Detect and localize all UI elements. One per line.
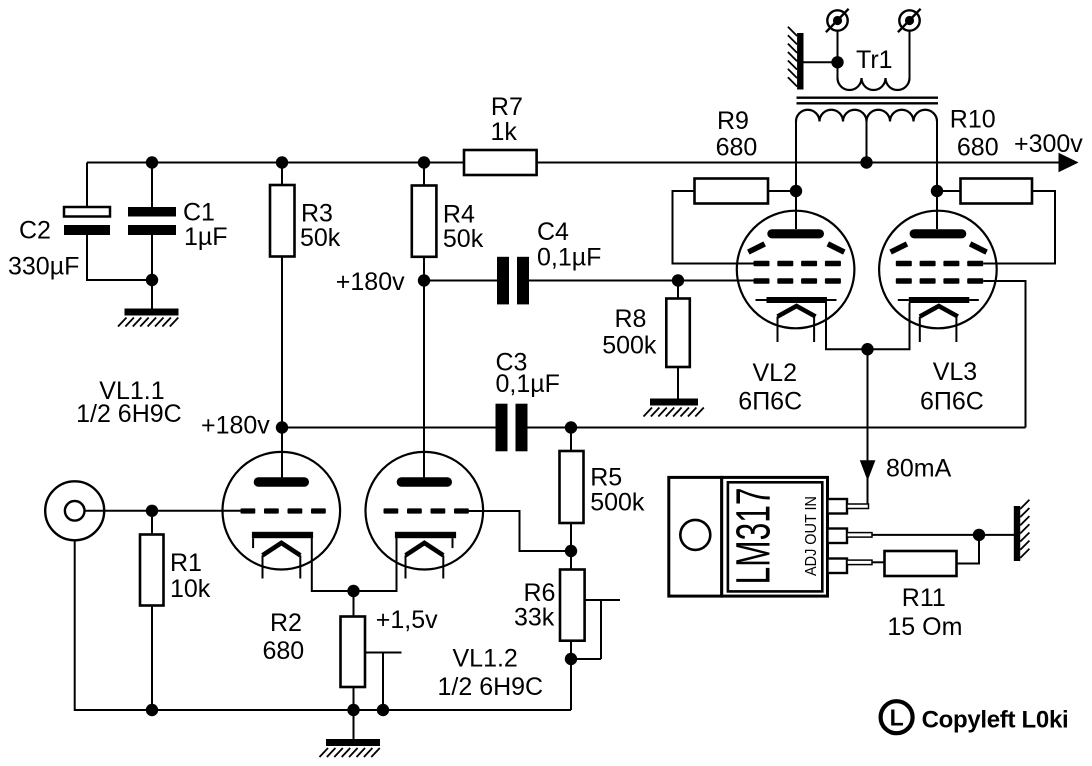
pentode VL3 <box>879 211 997 342</box>
svg-text:1/2 6Н9С: 1/2 6Н9С <box>76 400 182 428</box>
wire bus to ground 3 <box>353 710 355 740</box>
svg-text:+300v: +300v <box>1014 130 1083 158</box>
svg-text:680: 680 <box>263 637 305 665</box>
resistor R7 <box>464 150 537 175</box>
label VL1.2 <box>438 645 544 702</box>
triode VL1.2 <box>366 452 484 579</box>
wire ADJ to R11 <box>872 561 885 563</box>
junction C4-R8 <box>672 274 684 286</box>
label R4 <box>443 201 484 254</box>
resistor R6 (trimmer) <box>560 570 585 641</box>
label VL2 <box>738 359 802 416</box>
LM317 pin IN <box>828 499 869 514</box>
svg-text:R8: R8 <box>615 305 647 333</box>
ground below R8 <box>644 399 704 417</box>
label VL1.1 <box>76 377 182 428</box>
Tr1 primary winding <box>838 78 910 90</box>
wire ground bus bottom <box>75 540 571 710</box>
resistor R3 <box>270 185 295 257</box>
svg-text:680: 680 <box>957 134 999 162</box>
capacitor C3 <box>496 404 528 452</box>
wire R3 to VL1.1 anode <box>281 257 283 478</box>
junction Tr1 primary <box>831 56 843 68</box>
label R6 <box>514 579 555 632</box>
wire R9 right <box>768 190 796 192</box>
svg-text:R10: R10 <box>950 106 996 134</box>
label R1 <box>170 549 211 603</box>
junction C1-C2 <box>146 274 158 286</box>
pentode VL2 <box>737 211 855 342</box>
LM317 body U1 <box>722 477 828 596</box>
svg-text:R9: R9 <box>717 107 749 135</box>
input connector J1 <box>45 481 104 540</box>
svg-text:ADJ OUT IN: ADJ OUT IN <box>803 496 820 576</box>
svg-text:Tr1: Tr1 <box>856 46 893 74</box>
resistor R8 <box>666 299 690 368</box>
copyleft logo <box>881 701 913 733</box>
junction R1-bus <box>146 704 158 716</box>
junction cathodes VL1 <box>347 585 359 597</box>
ground near Tr1 <box>788 27 804 90</box>
R2 wiper tap <box>365 653 402 711</box>
capacitor C2 <box>64 207 110 235</box>
wire R1 bottom <box>151 606 153 711</box>
wire terminal1 down <box>837 31 839 79</box>
wire R6 top <box>570 551 572 570</box>
junction R3-C3 node <box>276 421 288 433</box>
wire VL3 grid riser <box>983 281 1025 428</box>
label R11 <box>887 584 962 641</box>
wire R11 to junction <box>957 535 980 564</box>
wire R5 top <box>570 428 572 452</box>
junction input-R1 <box>146 505 158 517</box>
label 80mA <box>886 455 952 483</box>
junction R9-anode VL2 <box>790 185 802 197</box>
label C4 <box>537 218 601 272</box>
wire secondary center tap <box>866 122 868 163</box>
wire R1 top <box>151 511 153 535</box>
label R7 <box>491 93 523 146</box>
svg-text:33k: 33k <box>514 604 555 632</box>
label +180v lower <box>201 412 270 440</box>
wire R4 node to C4 <box>424 280 497 282</box>
wire secondary left to VL2 anode <box>795 122 797 230</box>
Tr1 core <box>797 98 939 104</box>
label LM317 <box>728 488 781 585</box>
ground bottom <box>320 739 381 757</box>
junction R11-OUT <box>973 529 985 541</box>
wire VL1.1 cathode <box>312 538 354 591</box>
label R5 <box>590 464 645 517</box>
svg-text:R11: R11 <box>902 584 946 612</box>
R6 wiper tap <box>571 600 620 659</box>
capacitor C4 <box>497 257 529 305</box>
junction R6 wiper <box>565 653 577 665</box>
svg-text:6П6С: 6П6С <box>738 388 802 416</box>
svg-text:1µF: 1µF <box>184 223 228 251</box>
svg-text:50k: 50k <box>300 224 341 252</box>
resistor R10 <box>961 179 1033 204</box>
junction bus-C1 <box>146 156 158 168</box>
label C2 <box>8 217 79 281</box>
output terminal 2 <box>898 9 921 32</box>
wire VL1.2 grid to R5/R6 node <box>467 511 571 551</box>
junction R2-bus <box>347 704 359 716</box>
output terminal 1 <box>826 9 849 32</box>
junction R10-anode VL3 <box>931 185 943 197</box>
label R10 <box>950 106 999 162</box>
junction center tap-bus <box>860 156 872 168</box>
svg-text:VL1.2: VL1.2 <box>453 645 518 673</box>
label Copyleft L0ki <box>922 707 1069 734</box>
label VL3 <box>920 358 984 416</box>
wire C1 top <box>151 163 153 208</box>
wire R10 right to VL3 screen <box>983 191 1055 264</box>
svg-text:LM317: LM317 <box>728 488 781 585</box>
wire terminal2 down <box>909 31 911 79</box>
svg-text:15 Om: 15 Om <box>887 613 962 641</box>
svg-text:R7: R7 <box>491 93 523 121</box>
svg-text:0,1µF: 0,1µF <box>496 370 560 398</box>
wire cathodes to LM317 IN <box>867 349 869 506</box>
label R9 <box>716 107 758 162</box>
wire bus to R3 <box>281 163 283 186</box>
wire R2 top <box>353 591 355 617</box>
wire VL1.2 cathode <box>354 538 397 591</box>
svg-text:R1: R1 <box>170 549 202 577</box>
svg-text:+180v: +180v <box>201 412 270 440</box>
svg-text:R5: R5 <box>590 464 622 492</box>
wire R3 node to C3 <box>282 427 496 429</box>
resistor R1 <box>140 535 164 606</box>
label C1 <box>183 199 228 252</box>
wire R8 bottom <box>677 367 679 399</box>
svg-text:1k: 1k <box>491 118 518 146</box>
junction R5-R6-grid <box>565 545 577 557</box>
junction bus-R4 <box>418 156 430 168</box>
wire bus to R4 <box>423 163 425 186</box>
svg-text:50k: 50k <box>443 225 484 253</box>
wire R9 left to VL2 screen <box>673 191 754 264</box>
label R2 <box>263 609 305 665</box>
wire input to VL1.1 grid <box>85 510 241 512</box>
wire VL2 cathode <box>826 303 868 349</box>
junction R2 tap-bus <box>377 704 389 716</box>
label pins ADJ OUT IN <box>803 496 820 576</box>
junction R4-C4 node <box>418 274 430 286</box>
+300v arrowhead <box>1059 153 1079 172</box>
wire +300v bus <box>87 162 1060 164</box>
svg-text:C4: C4 <box>537 218 569 246</box>
wire secondary right to VL3 anode <box>936 122 938 230</box>
label R3 <box>300 200 341 253</box>
LM317 tab <box>669 477 722 596</box>
wire C1 bottom <box>151 235 153 280</box>
wire R5 bottom <box>570 523 572 551</box>
svg-text:1/2 6Н9С: 1/2 6Н9С <box>438 673 544 701</box>
label C3 <box>496 349 560 399</box>
junction bus-R3 <box>276 156 288 168</box>
resistor R2 (trimmer) <box>341 617 366 688</box>
LM317 pin OUT <box>828 529 873 544</box>
svg-text:+1,5v: +1,5v <box>376 606 438 634</box>
capacitor C1 <box>128 207 176 235</box>
svg-text:6П6С: 6П6С <box>920 388 984 416</box>
svg-text:330µF: 330µF <box>8 253 79 281</box>
wire R6 bottom <box>570 641 572 659</box>
ground right <box>1014 500 1030 561</box>
svg-text:0,1µF: 0,1µF <box>537 244 601 272</box>
svg-text:500k: 500k <box>602 332 657 360</box>
junction cathodes VL2-VL3 <box>861 343 873 355</box>
LM317 pin ADJ <box>828 559 873 574</box>
wire ground to primary <box>804 61 838 63</box>
wire C4 to VL2 grid <box>529 280 754 282</box>
80mA current arrowhead <box>860 460 876 481</box>
label Tr1 <box>856 46 893 74</box>
wire VL3 cathode <box>868 303 910 349</box>
label +300v <box>1014 130 1083 158</box>
resistor R4 <box>412 186 437 257</box>
label +180v upper <box>336 268 405 296</box>
wire C2 top <box>86 163 88 208</box>
wire C3 to VL3 grid riser <box>528 427 1026 429</box>
svg-text:R2: R2 <box>270 609 302 637</box>
svg-text:VL2: VL2 <box>753 359 797 387</box>
svg-text:L: L <box>890 705 904 731</box>
svg-text:80mA: 80mA <box>886 455 952 483</box>
svg-text:680: 680 <box>716 134 758 162</box>
label R8 <box>602 305 657 360</box>
junction C3-R5 <box>565 421 577 433</box>
label +1,5v <box>376 606 438 634</box>
wire C2 bottom <box>87 235 152 280</box>
svg-text:+180v: +180v <box>336 268 405 296</box>
wire R8 top <box>677 281 679 299</box>
resistor R5 <box>560 451 584 523</box>
resistor R9 <box>695 179 769 204</box>
wire R2 bottom <box>353 687 355 710</box>
svg-text:500k: 500k <box>590 489 645 517</box>
svg-text:Copyleft L0ki: Copyleft L0ki <box>922 707 1069 734</box>
wire R10 left <box>937 190 961 192</box>
wire R6 to ground bus <box>570 659 572 710</box>
svg-text:10k: 10k <box>170 575 211 603</box>
Tr1 secondary winding <box>796 110 937 122</box>
wire OUT to ground <box>872 534 1014 536</box>
svg-text:VL3: VL3 <box>933 358 977 386</box>
triode VL1.1 <box>222 452 340 579</box>
svg-text:C2: C2 <box>19 217 51 245</box>
resistor R11 <box>885 551 957 576</box>
wire to ground 1 <box>151 280 153 309</box>
ground below C1 <box>118 309 179 327</box>
wire R4 to VL1.2 anode <box>423 257 425 478</box>
